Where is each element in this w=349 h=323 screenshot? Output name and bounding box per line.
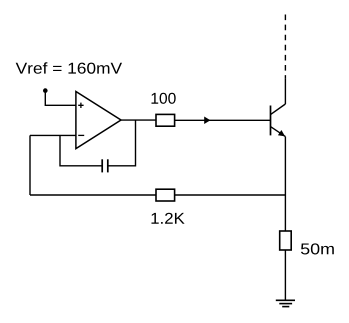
- wire op-amp inverting input: [30, 134, 76, 136]
- wire resistor 1.2K to emitter net: [175, 194, 286, 196]
- wire resistor 100 to transistor base: [175, 119, 271, 121]
- resistor R3 50m: [280, 231, 292, 250]
- ground: [276, 300, 295, 306]
- label 1.2K: [151, 213, 184, 224]
- wire collector solid: [284, 79, 286, 104]
- arrowhead on base wire: [204, 117, 210, 125]
- label 50m: [301, 243, 334, 254]
- resistor R2 1.2K: [156, 189, 175, 201]
- wire resistor 50m to ground: [284, 250, 286, 300]
- wire inverting input to capacitor branch: [60, 135, 102, 165]
- wire collector dashed off-page: [284, 15, 286, 79]
- label 100: [151, 93, 175, 104]
- capacitor C1: [102, 159, 108, 172]
- node Vref terminal dot: [43, 88, 48, 93]
- op-amp U1: [76, 92, 121, 149]
- wire op-amp output: [121, 119, 156, 121]
- wire emitter down to resistor 50m: [284, 137, 286, 231]
- resistor R1 100: [156, 114, 175, 126]
- transistor Q1: [271, 104, 286, 137]
- wire capacitor to feedback right vertical: [108, 120, 136, 166]
- wire Vref dot to op-amp noninverting input: [45, 91, 76, 106]
- wire left feedback vertical: [29, 135, 31, 195]
- wire bottom feedback to resistor 1.2K: [30, 194, 156, 196]
- node Vref label: [16, 62, 122, 74]
